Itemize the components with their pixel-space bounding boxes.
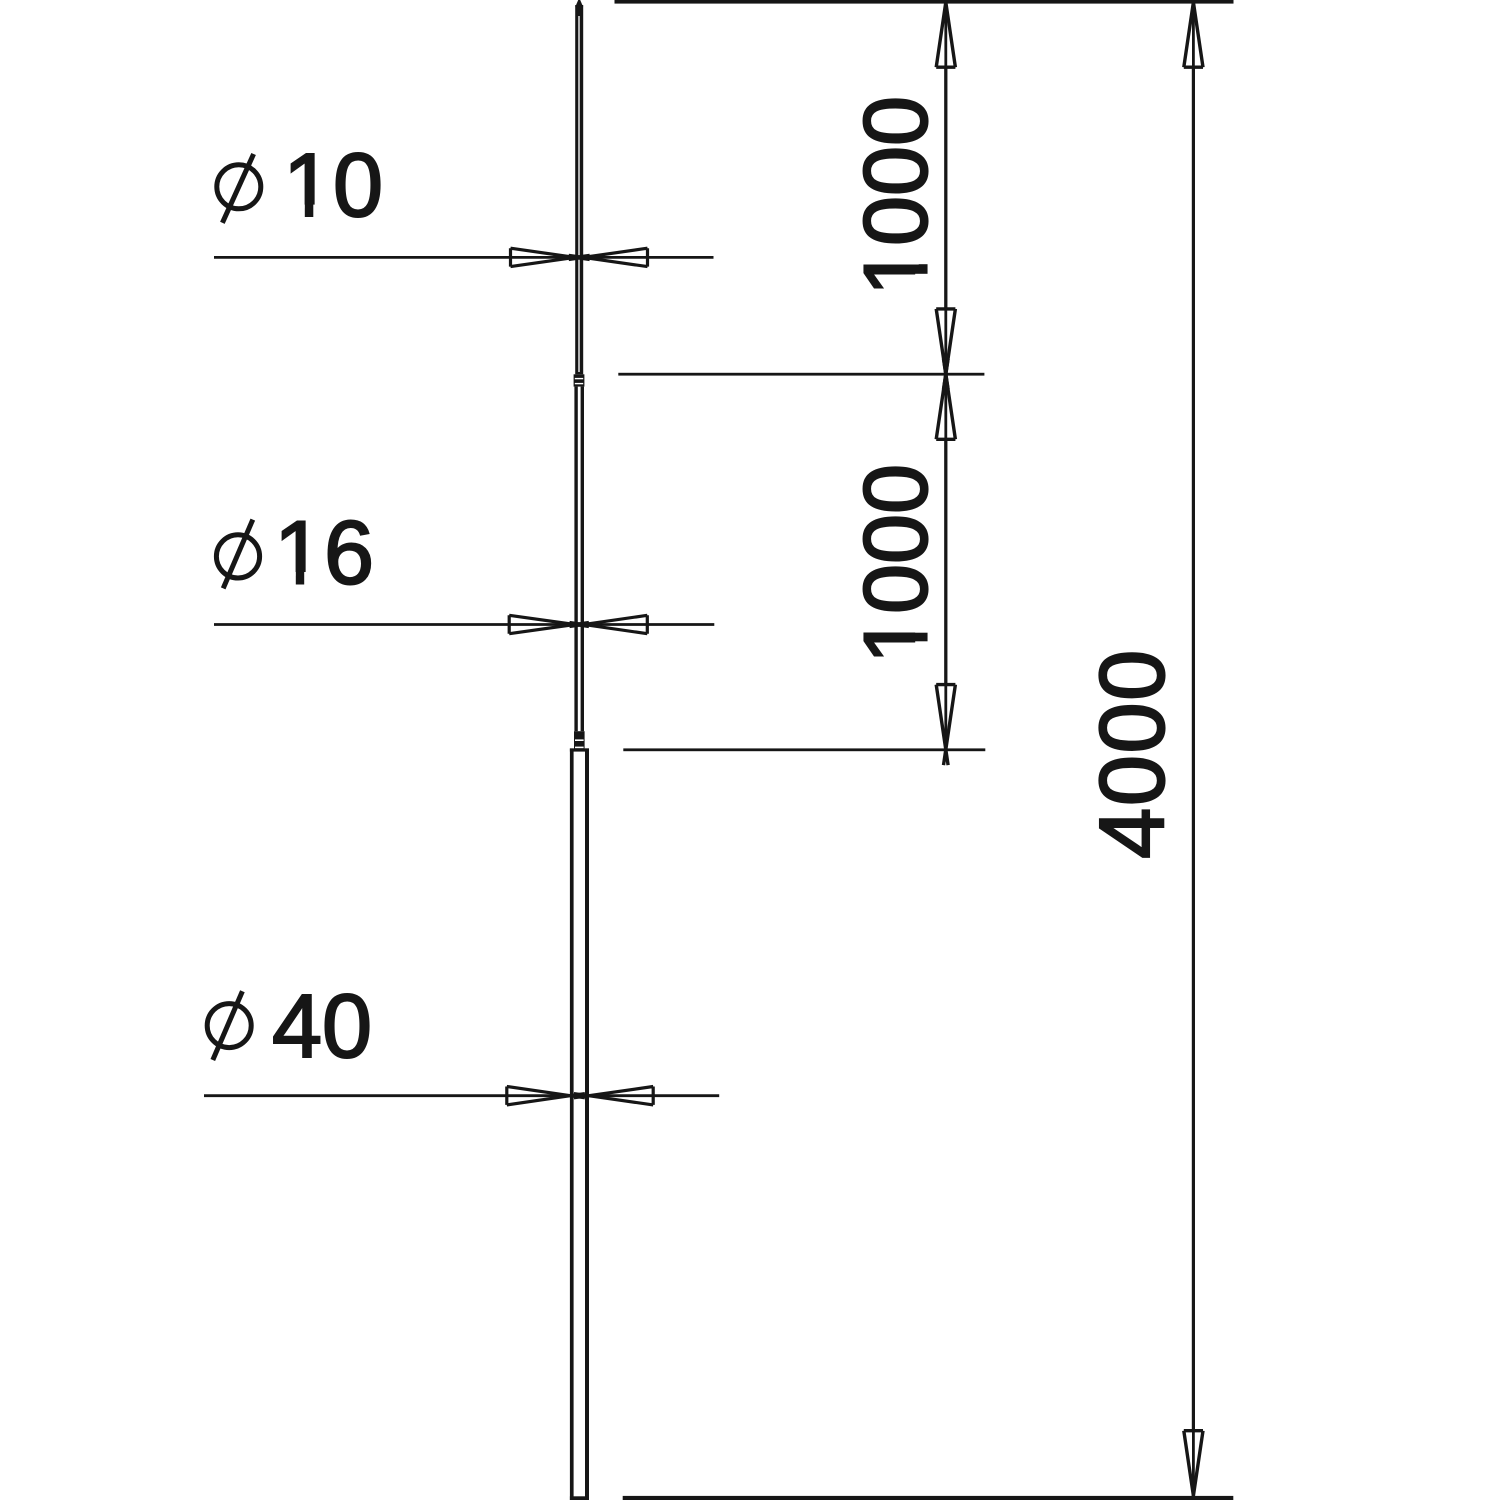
- dimension line A (1000/1000): [944, 2, 947, 750]
- bottom reference line (rod base level): [623, 1496, 1234, 1500]
- dimension row diameter 16: left arrow: [509, 615, 574, 633]
- svg-text:16: 16: [274, 503, 374, 603]
- tube segment diameter 40: [570, 748, 589, 751]
- dimension row diameter 40: right arrow: [588, 1087, 653, 1105]
- dim B arrow down at bottom: [1184, 1431, 1203, 1496]
- dim A arrow down at 1000 level: [936, 309, 955, 374]
- dim A arrow up below 1000 level: [936, 374, 955, 439]
- coupling sleeve 1: [574, 374, 585, 386]
- dimension row diameter 10: leader lines: [214, 256, 714, 259]
- dimension row diameter 10: left arrow: [511, 248, 576, 266]
- svg-text:10: 10: [283, 136, 383, 236]
- dim line B core: [1192, 2, 1195, 1496]
- dimension row diameter 16: right arrow: [584, 615, 647, 633]
- diameter symbol for 16: [216, 535, 259, 578]
- dim A arrow down at 2000 level: [936, 685, 955, 750]
- svg-text:40: 40: [272, 977, 372, 1077]
- dimension line B (4000): [1192, 2, 1195, 1496]
- rod segment diameter 16: [574, 387, 577, 732]
- svg-text:1000: 1000: [846, 96, 946, 296]
- rod tip: [575, 0, 583, 7]
- dimension row diameter 40: left arrow: [507, 1087, 571, 1105]
- dim A arrow up at top: [936, 2, 955, 67]
- svg-text:1000: 1000: [846, 464, 946, 664]
- dim B arrow up at top: [1184, 2, 1203, 67]
- diameter symbol for 10: [217, 165, 261, 209]
- dim line A core: [944, 2, 947, 750]
- diameter symbol for 40: [207, 1004, 251, 1048]
- glyph cleanup patches: [288, 205, 305, 219]
- dimension row diameter 10: right arrow: [583, 248, 647, 266]
- dimension row diameter 40: leader lines: [204, 1094, 719, 1097]
- dimension row diameter 16: leader lines: [214, 623, 714, 626]
- top reference line (rod tip level): [615, 0, 1234, 4]
- coupling sleeve 2: [574, 731, 585, 750]
- extension line at 1000 level: [618, 373, 984, 376]
- svg-text:4000: 4000: [1081, 648, 1183, 859]
- extension line at 2000 level: [623, 748, 985, 751]
- rod segment diameter 10: [575, 5, 583, 374]
